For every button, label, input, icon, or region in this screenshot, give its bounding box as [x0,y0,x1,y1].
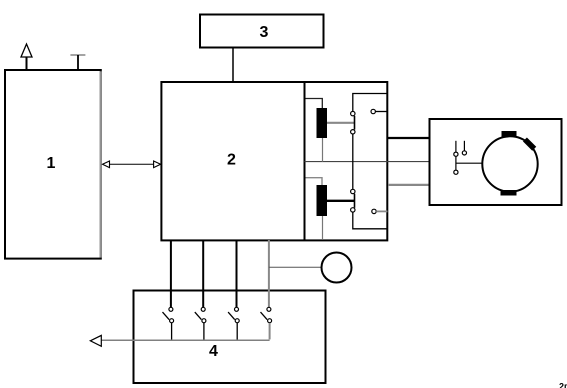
svg-text:3: 3 [260,24,269,41]
wire bus from switches [102,339,270,341]
motor brush bottom [501,190,517,196]
wire drop line 1 [170,240,172,307]
block 1 (receiver unit) [5,70,101,259]
wire to motor box lower [388,184,430,186]
switch S1 [163,307,174,340]
motor box [430,119,562,205]
svg-text:4: 4 [209,343,218,360]
motor brush diagonal [523,137,536,150]
divider horizontal mid line extending to motor box [305,161,430,163]
svg-text:1: 1 [46,155,55,172]
wire branch to lamp [269,266,322,268]
wire contact K2 bottom to right edge [353,212,388,229]
wire feed to relay K2 coil [306,178,323,186]
wire drop line 2 [202,240,204,307]
wire contact K1 top terminal to right edge [353,94,388,112]
block 2 (controller, outer box shared with driver section) [161,82,387,240]
block 3 (display unit) [200,15,324,48]
wire contact K1 bottom to contact K2 top [352,134,354,189]
antenna [21,44,32,70]
output arrow [90,335,101,346]
lamp HL1 [322,253,352,283]
wire drop line 4 [268,240,270,307]
wire K2 coil bottom to box bottom [322,216,324,239]
wire bidirectional arrow between block 1 and block 2 [103,161,161,168]
relay K2 coil [317,185,328,216]
motor M rotor [482,136,537,191]
wire block 3 to block 2 [232,48,234,83]
wire K1 coil bottom to mid line [322,138,324,162]
sensor T probe [70,55,85,70]
relay K2 contact [351,189,355,212]
wire drop line 3 [236,240,238,307]
svg-text:2г: 2г [559,381,567,388]
contact terminal lower right [372,209,388,213]
switch S3 [228,307,239,340]
divider between block 2 and relay section [304,82,306,240]
switch S2 [195,307,206,340]
wire switch to motor [456,162,482,164]
wire to motor box upper [388,137,430,139]
switch S4 [261,307,272,339]
block 4 (switch panel) [134,291,326,384]
svg-text:2: 2 [227,152,236,169]
limit switch in motor box [454,141,467,174]
contact terminal upper right [371,109,388,113]
wire feed to relay K1 coil [306,99,323,109]
relay K1 coil [317,108,328,138]
mechanical link K1 coil to contact [327,122,355,124]
motor brush top [502,131,517,137]
relay K1 contact [351,111,355,134]
mechanical link K2 coil to contact [327,200,355,202]
